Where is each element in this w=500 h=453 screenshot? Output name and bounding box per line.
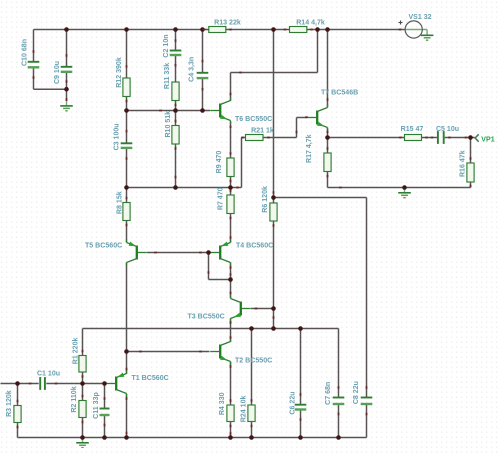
wire T1 collector	[126, 394, 128, 438]
resistor R8	[123, 203, 130, 221]
svg-text:T7 BC546B: T7 BC546B	[321, 90, 358, 97]
wire output ground stub	[404, 188, 406, 193]
resistor R13	[209, 27, 226, 33]
svg-text:R15 47: R15 47	[401, 126, 424, 133]
wire T7 emitter node	[327, 128, 329, 138]
wire T3 emitter T2 collector	[230, 318, 232, 342]
svg-text:R4 330: R4 330	[219, 392, 226, 415]
svg-text:C7 68n: C7 68n	[325, 382, 332, 405]
capacitor C3	[121, 142, 133, 144]
capacitor C11	[100, 408, 110, 410]
ground	[398, 192, 411, 194]
wire C10 branch	[33, 30, 35, 62]
svg-text:R12 390k: R12 390k	[116, 57, 123, 88]
resistor R10	[172, 126, 179, 145]
transistor T7	[316, 111, 318, 125]
ground	[60, 105, 73, 107]
voltage source VS1	[405, 29, 427, 31]
svg-text:R21 1k: R21 1k	[251, 128, 274, 135]
wire R6 top net	[274, 197, 367, 199]
resistor R11	[172, 82, 179, 101]
wire T2 emitter R4	[230, 362, 232, 405]
wire C7 branch	[338, 329, 340, 398]
transistor T2	[219, 345, 221, 359]
svg-text:C11 33p: C11 33p	[93, 391, 100, 418]
capacitor C4	[197, 72, 209, 74]
transistor T5	[136, 246, 138, 260]
transistor T1	[115, 377, 117, 391]
resistor R17	[324, 153, 331, 172]
svg-text:T2 BC550C: T2 BC550C	[235, 358, 272, 365]
transistor T4	[219, 246, 221, 260]
wire bottom ground stub	[82, 438, 84, 443]
wire R10 column	[175, 111, 177, 126]
resistor R12	[123, 78, 130, 97]
wire C6 branch	[300, 329, 302, 405]
wire R12 column	[126, 30, 128, 79]
capacitor C7	[333, 397, 345, 399]
wire R8 net	[127, 187, 231, 189]
resistor R16	[467, 163, 474, 182]
capacitor C1	[39, 377, 41, 390]
svg-text:R8 15k: R8 15k	[116, 191, 123, 214]
svg-text:T5 BC560C: T5 BC560C	[85, 242, 122, 249]
svg-text:C3 100u: C3 100u	[114, 123, 121, 150]
svg-text:C8 22u: C8 22u	[353, 381, 360, 404]
wire C3 to R8 to T5	[126, 188, 128, 203]
wire T4-T3 collectors	[230, 263, 232, 299]
resistor R1	[79, 356, 86, 373]
svg-text:R16 47k: R16 47k	[460, 150, 467, 177]
svg-text:T3 BC550C: T3 BC550C	[188, 314, 225, 321]
wire top supply rail	[34, 29, 209, 31]
wire C11 branch	[104, 384, 106, 409]
capacitor C8	[361, 397, 373, 399]
wire R17 branch	[327, 138, 329, 154]
wire bootstrap column	[273, 30, 275, 204]
svg-text:R11 33k: R11 33k	[164, 63, 171, 89]
wire R16 branch	[470, 138, 472, 164]
wire R21 left link	[231, 187, 242, 189]
resistor R15	[405, 135, 422, 141]
wire T6 collector loop	[231, 72, 318, 74]
resistor R24	[248, 405, 255, 422]
svg-text:VS1 32: VS1 32	[408, 14, 431, 21]
svg-text:R6 120k: R6 120k	[262, 186, 269, 213]
wire output ground net	[328, 187, 471, 189]
wire T6 emitter R9 R7 chain	[230, 122, 232, 159]
wire current mirror base	[147, 252, 210, 254]
wire T5 collector to T1 emitter	[126, 263, 128, 352]
wire T7 base link	[297, 117, 307, 119]
svg-text:C2 10n: C2 10n	[163, 34, 170, 57]
svg-text:R14 4,7k: R14 4,7k	[296, 20, 325, 27]
wire T3 base	[251, 308, 273, 310]
svg-text:C5 10u: C5 10u	[436, 126, 459, 133]
resistor R9	[227, 158, 234, 177]
svg-text:R24 10k: R24 10k	[241, 396, 248, 423]
svg-text:C9 10u: C9 10u	[54, 61, 61, 84]
capacitor C5	[437, 131, 439, 144]
wire bottom rail	[18, 437, 367, 439]
ground	[76, 442, 89, 444]
wire C4 column	[202, 30, 204, 73]
wire T7 collector	[327, 30, 329, 108]
svg-text:R13 22k: R13 22k	[214, 20, 241, 27]
svg-text:R9 470: R9 470	[216, 151, 223, 174]
wire R24 branch	[251, 329, 253, 406]
wire input line	[1, 383, 39, 385]
wire T2 base	[127, 351, 210, 353]
resistor R21	[246, 135, 264, 141]
wire R1 branch	[82, 329, 84, 356]
wire C2/R11 column	[175, 30, 177, 51]
svg-text:T6 BC550C: T6 BC550C	[235, 116, 272, 123]
wire C9 branch	[66, 30, 68, 67]
pin end marks	[33, 50, 35, 53]
svg-text:R10 51k: R10 51k	[165, 111, 172, 138]
capacitor C9	[61, 66, 73, 68]
svg-text:T4 BC560C: T4 BC560C	[236, 243, 273, 250]
transistor T6	[219, 104, 221, 118]
svg-text:C1 10u: C1 10u	[37, 371, 60, 378]
capacitor C6	[295, 404, 307, 406]
resistor R7	[227, 195, 234, 214]
wire C10/C9 bottom link	[34, 88, 67, 90]
svg-text:R3 120k: R3 120k	[6, 390, 13, 417]
junction dots	[64, 27, 69, 32]
wire R2 branch	[82, 384, 84, 401]
svg-text:C6 22u: C6 22u	[290, 391, 297, 414]
wire R3 branch	[17, 384, 19, 406]
wire T6 base net	[127, 110, 211, 112]
resistor R4	[227, 405, 234, 422]
transistor T3	[240, 302, 242, 316]
svg-text:R7 470: R7 470	[218, 187, 225, 210]
svg-text:R17 4,7k: R17 4,7k	[306, 134, 313, 163]
svg-text:R1 220k: R1 220k	[73, 338, 80, 365]
wire VS1 ground stub	[426, 30, 428, 36]
svg-text:C10 68n: C10 68n	[22, 39, 29, 66]
svg-text:C4 3,3n: C4 3,3n	[189, 57, 196, 82]
svg-text:VP1: VP1	[481, 136, 494, 143]
svg-text:R2 110k: R2 110k	[71, 386, 78, 412]
wire C8 column	[366, 198, 368, 398]
resistor R6	[270, 203, 277, 221]
capacitor C10	[28, 61, 40, 63]
output terminal VP1	[475, 134, 479, 141]
resistor R2	[79, 401, 86, 418]
resistor R3	[14, 406, 21, 423]
wire feedback net	[83, 328, 339, 330]
capacitor C2	[170, 50, 182, 52]
resistor R14	[290, 27, 307, 33]
ground	[421, 34, 434, 36]
svg-text:T1 BC560C: T1 BC560C	[132, 375, 169, 382]
